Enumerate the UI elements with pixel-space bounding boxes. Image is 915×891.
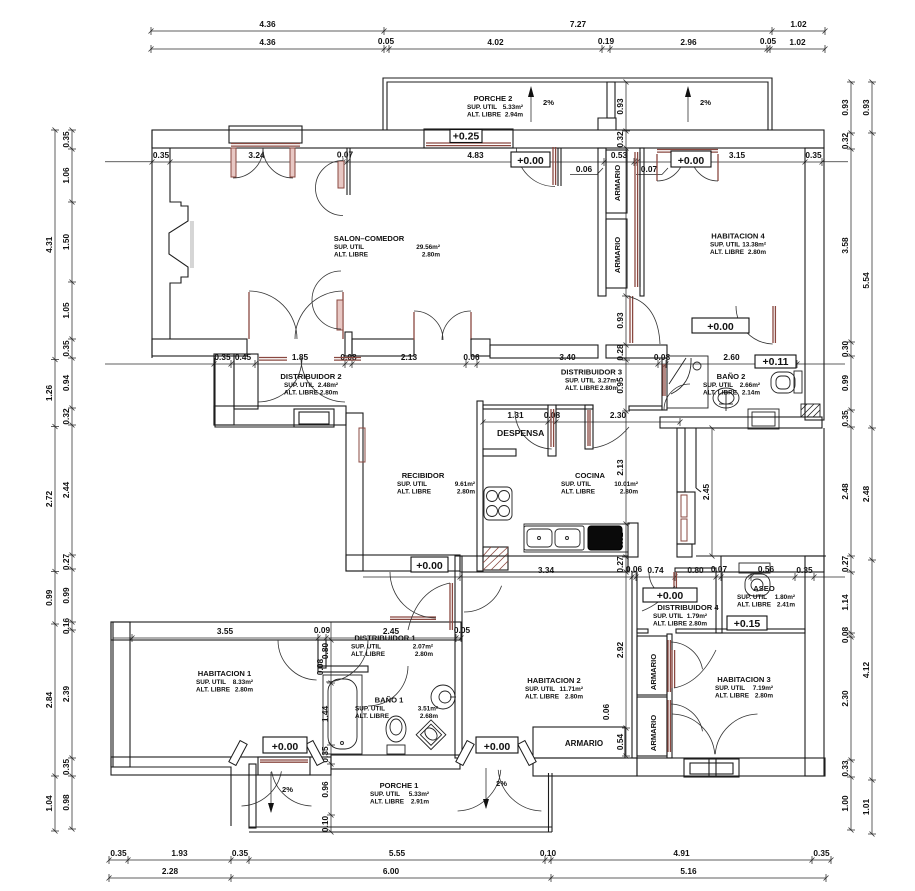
svg-text:DISTRIBUIDOR 2: DISTRIBUIDOR 2 <box>280 372 341 381</box>
door salon-recibidor double arcs up <box>413 312 415 340</box>
bano1 bidet diamond <box>416 720 446 750</box>
svg-text:13.38m²: 13.38m² <box>742 242 766 249</box>
svg-text:ALT. LIBRE: ALT. LIBRE <box>397 489 432 496</box>
interior vertical dimension line x331 porche1 <box>330 640 332 832</box>
svg-text:ARMARIO: ARMARIO <box>649 715 658 751</box>
hab1 left wall <box>111 622 130 767</box>
svg-text:2.80m: 2.80m <box>422 252 440 259</box>
svg-text:10.01m²: 10.01m² <box>614 481 638 488</box>
aseo toilet <box>739 563 770 573</box>
svg-text:5.33m²: 5.33m² <box>503 104 523 111</box>
terrace bottom line <box>696 555 826 557</box>
bano2 bottom wall <box>660 417 822 428</box>
svg-text:0.94: 0.94 <box>61 375 71 392</box>
bano1 toilet <box>386 716 406 742</box>
salon bottom wall mid <box>352 339 414 356</box>
interior dimension line lower-block y577 <box>460 576 814 578</box>
svg-text:SALON–COMEDOR: SALON–COMEDOR <box>334 234 405 243</box>
svg-text:2.84: 2.84 <box>44 692 54 709</box>
salon bottom wall right <box>471 339 490 356</box>
svg-text:ARMARIO: ARMARIO <box>565 739 603 748</box>
window salon top-left <box>229 126 302 143</box>
svg-text:0.07: 0.07 <box>337 150 354 160</box>
dimension line right column 2 <box>871 82 873 834</box>
svg-text:ALT. LIBRE: ALT. LIBRE <box>653 621 688 628</box>
corridor top wall <box>629 406 662 410</box>
door distrib4 leaf and arc <box>673 572 675 596</box>
svg-text:+0.15: +0.15 <box>734 618 761 630</box>
svg-text:2.80m: 2.80m <box>320 390 338 397</box>
left exterior wall <box>151 130 153 358</box>
porche 2 outline <box>383 78 772 130</box>
doors hab1 porche diagonal leaves <box>229 741 247 766</box>
svg-text:ARMARIO: ARMARIO <box>613 165 622 201</box>
svg-text:+0.00: +0.00 <box>678 155 705 167</box>
svg-text:0.93: 0.93 <box>615 312 625 329</box>
svg-text:SUP. UTIL: SUP. UTIL <box>525 686 555 693</box>
svg-text:2.80m: 2.80m <box>620 489 638 496</box>
bano2 toilet <box>794 371 802 393</box>
cocina top wall right of despensa <box>556 405 593 409</box>
hab2-armario central wall <box>632 572 637 758</box>
svg-text:2.68m: 2.68m <box>420 713 438 720</box>
dimension line bottom row 1 <box>109 859 831 861</box>
svg-text:2.80m: 2.80m <box>689 621 707 628</box>
svg-text:0.08: 0.08 <box>840 627 850 644</box>
hab1-distrib1 wall 0.09 <box>318 640 326 668</box>
interior vertical dimension line x331 extension <box>330 622 332 640</box>
svg-text:1.01: 1.01 <box>861 799 871 816</box>
dimension line left column 2 <box>71 130 73 829</box>
svg-text:ALT. LIBRE: ALT. LIBRE <box>196 687 231 694</box>
kitchen hob black <box>588 526 622 550</box>
svg-text:9.61m²: 9.61m² <box>455 481 475 488</box>
svg-text:2.13: 2.13 <box>401 352 418 362</box>
svg-text:+0.00: +0.00 <box>707 321 734 333</box>
entry door leaf and arc <box>552 147 554 185</box>
svg-text:5.33m²: 5.33m² <box>409 791 429 798</box>
bano2 shower <box>667 356 708 408</box>
salon right wall <box>598 148 606 296</box>
svg-text:ALT. LIBRE: ALT. LIBRE <box>561 489 596 496</box>
svg-text:1.02: 1.02 <box>789 37 806 47</box>
door hab4 bottom leaf and arc <box>772 306 774 343</box>
svg-text:ALT. LIBRE: ALT. LIBRE <box>334 252 369 259</box>
svg-text:2.66m²: 2.66m² <box>740 382 760 389</box>
svg-text:1.05: 1.05 <box>61 302 71 319</box>
svg-text:1.06: 1.06 <box>61 167 71 184</box>
svg-text:SUP. UTIL: SUP. UTIL <box>397 481 427 488</box>
svg-text:3.27m²: 3.27m² <box>598 378 618 385</box>
door distrib1 arc <box>326 640 368 682</box>
svg-text:0.06: 0.06 <box>576 164 593 174</box>
armario mid 2 <box>637 697 667 756</box>
brown thresholds distrib2 <box>259 357 287 359</box>
svg-text:1.80m²: 1.80m² <box>775 594 795 601</box>
hab4 left wall <box>640 148 644 296</box>
bano2 door jamb <box>662 358 667 410</box>
svg-text:0.99: 0.99 <box>44 589 54 606</box>
svg-text:0.35: 0.35 <box>840 410 850 427</box>
hab3 bottom wall <box>637 758 825 776</box>
svg-text:2.80m: 2.80m <box>235 687 253 694</box>
svg-text:3.58: 3.58 <box>840 237 850 254</box>
slope arrow porche2 left <box>530 88 532 122</box>
svg-text:2%: 2% <box>496 779 507 788</box>
svg-text:2.91m: 2.91m <box>411 799 429 806</box>
svg-text:4.12: 4.12 <box>861 662 871 679</box>
svg-text:ALT. LIBRE: ALT. LIBRE <box>284 390 319 397</box>
door distrib2 lower arcs <box>258 358 302 402</box>
svg-text:2.72: 2.72 <box>44 491 54 508</box>
svg-text:ALT. LIBRE: ALT. LIBRE <box>355 713 390 720</box>
distribuidor 2 left wall <box>214 354 234 425</box>
svg-text:ALT. LIBRE: ALT. LIBRE <box>737 602 772 609</box>
svg-text:2.07m²: 2.07m² <box>413 644 433 651</box>
svg-text:0.05: 0.05 <box>378 36 395 46</box>
aseo-distrib4 divider wall <box>716 572 722 633</box>
svg-text:BAÑO 2: BAÑO 2 <box>717 372 746 381</box>
svg-text:3.40: 3.40 <box>559 352 576 362</box>
armario sliding fronts brown <box>634 152 636 287</box>
armario column right wall <box>667 634 672 758</box>
level +0.00 distrib4 <box>643 588 697 602</box>
svg-text:0.74: 0.74 <box>647 565 664 575</box>
slope arrow porche1 left <box>270 772 272 812</box>
svg-text:2.96: 2.96 <box>680 37 697 47</box>
distrib4 bottom / hab3 top wall <box>637 629 648 633</box>
slope arrow porche1 right <box>485 768 487 808</box>
armario mid brown fronts <box>667 640 669 692</box>
svg-text:0.35: 0.35 <box>232 848 249 858</box>
armario top 2 <box>606 219 627 288</box>
kitchen sink unit <box>524 526 584 550</box>
svg-text:SUP. UTIL: SUP. UTIL <box>467 104 497 111</box>
svg-text:2.44: 2.44 <box>61 482 71 499</box>
svg-text:0.35: 0.35 <box>813 848 830 858</box>
bano2 door arc <box>664 384 690 410</box>
svg-text:3.34: 3.34 <box>538 565 555 575</box>
svg-text:5.16: 5.16 <box>680 866 697 876</box>
svg-text:ALT. LIBRE: ALT. LIBRE <box>525 694 560 701</box>
dimension line top row 1 <box>151 30 825 32</box>
bano2 towel radiator below wall <box>748 409 779 429</box>
svg-text:0.07: 0.07 <box>641 164 658 174</box>
terrace left wall upper <box>677 428 685 492</box>
svg-text:SUP. UTIL: SUP. UTIL <box>355 706 385 713</box>
svg-text:0.06: 0.06 <box>601 704 611 721</box>
svg-text:0.53: 0.53 <box>611 150 628 160</box>
top exterior wall <box>152 130 824 148</box>
svg-text:2.80m: 2.80m <box>600 385 618 392</box>
svg-text:7.19m²: 7.19m² <box>753 685 773 692</box>
bano2 radiator hatched <box>801 404 820 417</box>
svg-text:+0.25: +0.25 <box>453 131 480 143</box>
window recibidor left <box>359 428 365 462</box>
terrace right line <box>823 428 825 556</box>
svg-text:2.80m: 2.80m <box>565 694 583 701</box>
svg-text:DISTRIBUIDOR 4: DISTRIBUIDOR 4 <box>657 603 719 612</box>
salon bottom wall jamb 0.08 <box>345 332 352 356</box>
svg-text:2.80m: 2.80m <box>748 249 766 256</box>
kitchen counter <box>524 524 628 552</box>
svg-text:SUP. UTIL: SUP. UTIL <box>710 242 740 249</box>
svg-text:SUP. UTIL: SUP. UTIL <box>561 481 591 488</box>
recibidor left wall <box>346 413 363 571</box>
interior dimension line hab1 y638 extension <box>113 637 132 639</box>
interior dimension line y161 extension <box>105 161 152 163</box>
svg-text:2.39: 2.39 <box>61 686 71 703</box>
svg-text:2.48m²: 2.48m² <box>318 382 338 389</box>
svg-text:0.09: 0.09 <box>314 625 331 635</box>
svg-text:DESPENSA: DESPENSA <box>497 428 544 438</box>
svg-text:0.10: 0.10 <box>540 848 557 858</box>
svg-text:0.35: 0.35 <box>61 340 71 357</box>
dimension line right column 1 <box>850 82 852 830</box>
svg-text:4.31: 4.31 <box>44 236 54 253</box>
level +0.00 recibidor <box>411 557 448 572</box>
svg-text:3.55: 3.55 <box>217 626 234 636</box>
distribuidor 2 bottom wall <box>214 406 346 425</box>
svg-text:ALT. LIBRE: ALT. LIBRE <box>351 651 386 658</box>
svg-text:ASEO: ASEO <box>753 584 775 593</box>
interior dimension line y364 <box>214 363 797 365</box>
svg-text:0.05: 0.05 <box>760 36 777 46</box>
outer boundary lower left <box>113 622 231 826</box>
svg-text:5.55: 5.55 <box>389 848 406 858</box>
svg-text:1.79m²: 1.79m² <box>687 613 707 620</box>
svg-text:COCINA: COCINA <box>575 471 605 480</box>
interior dimension line y364 extension <box>105 363 214 365</box>
svg-text:1.93: 1.93 <box>171 848 188 858</box>
svg-text:4.02: 4.02 <box>487 37 504 47</box>
svg-text:0.93: 0.93 <box>861 99 871 116</box>
door armarios to distrib3 <box>629 296 631 343</box>
svg-text:0.35: 0.35 <box>110 848 127 858</box>
svg-text:3.51m²: 3.51m² <box>418 706 438 713</box>
hab1 top wall <box>111 622 461 640</box>
svg-text:1.04: 1.04 <box>44 795 54 812</box>
svg-text:SUP. UTIL: SUP. UTIL <box>196 679 226 686</box>
svg-text:+0.00: +0.00 <box>416 560 443 572</box>
svg-text:DISTRIBUIDOR 1: DISTRIBUIDOR 1 <box>354 634 416 643</box>
svg-text:0.35: 0.35 <box>153 150 170 160</box>
svg-text:0.35: 0.35 <box>805 150 822 160</box>
svg-text:2.80m: 2.80m <box>755 693 773 700</box>
svg-text:SUP. UTIL: SUP. UTIL <box>351 644 381 651</box>
svg-text:SUP. UTIL: SUP. UTIL <box>334 244 364 251</box>
svg-text:SUP. UTIL: SUP. UTIL <box>653 613 683 620</box>
svg-text:5.54: 5.54 <box>861 272 871 289</box>
terrace left wall lower <box>677 544 692 557</box>
svg-text:4.36: 4.36 <box>259 37 276 47</box>
svg-text:1.26: 1.26 <box>44 385 54 402</box>
svg-text:0.32: 0.32 <box>840 133 850 150</box>
svg-text:2%: 2% <box>700 98 711 107</box>
svg-text:SUP. UTIL: SUP. UTIL <box>737 594 767 601</box>
svg-text:BAÑO 1: BAÑO 1 <box>375 696 404 705</box>
svg-text:0.08: 0.08 <box>544 410 561 420</box>
interior dimension line despensa y422 <box>483 421 680 423</box>
svg-text:2.28: 2.28 <box>162 866 179 876</box>
level +0.15 aseo <box>727 616 767 630</box>
svg-text:0.27: 0.27 <box>840 556 850 573</box>
svg-text:2.41m: 2.41m <box>777 602 795 609</box>
svg-text:0.30: 0.30 <box>840 341 850 358</box>
door salon top-left double arcs <box>231 148 236 177</box>
svg-text:1.50: 1.50 <box>61 234 71 251</box>
hatched step cocina <box>483 547 508 570</box>
svg-text:0.98: 0.98 <box>61 794 71 811</box>
svg-text:ALT. LIBRE: ALT. LIBRE <box>370 799 405 806</box>
svg-text:0.32: 0.32 <box>61 408 71 425</box>
level +0.00 hab2 <box>476 737 518 753</box>
svg-text:SUP. UTIL: SUP. UTIL <box>565 378 595 385</box>
svg-text:7.27: 7.27 <box>570 19 587 29</box>
armario mid 1 <box>637 636 667 695</box>
armario mid door arcs <box>670 642 703 669</box>
armario hab2 bottom <box>533 727 625 758</box>
svg-text:ALT. LIBRE: ALT. LIBRE <box>715 693 750 700</box>
svg-text:0.54: 0.54 <box>615 734 625 751</box>
svg-text:ALT. LIBRE: ALT. LIBRE <box>710 249 745 256</box>
svg-text:SUP. UTIL: SUP. UTIL <box>715 685 745 692</box>
svg-text:0.99: 0.99 <box>61 587 71 604</box>
door aseo arc <box>642 586 675 611</box>
entrance step vestibule <box>294 409 334 427</box>
svg-text:0.35: 0.35 <box>61 131 71 148</box>
svg-text:4.91: 4.91 <box>673 848 690 858</box>
level +0.00 hab4 <box>692 318 749 333</box>
svg-text:1.44: 1.44 <box>320 706 330 723</box>
svg-text:ARMARIO: ARMARIO <box>613 237 622 273</box>
terrace inner line <box>695 428 697 488</box>
svg-text:1.00: 1.00 <box>840 795 850 812</box>
svg-text:2.45: 2.45 <box>701 484 711 501</box>
porche1 bottom edge <box>249 826 552 828</box>
bano1 bathtub <box>323 675 362 754</box>
porche1 right edge <box>548 773 550 832</box>
svg-text:2%: 2% <box>543 98 554 107</box>
svg-text:0.16: 0.16 <box>61 618 71 635</box>
svg-text:0.93: 0.93 <box>615 98 625 115</box>
aseo top wall <box>721 556 824 572</box>
svg-text:+0.00: +0.00 <box>517 155 544 167</box>
svg-text:ALT. LIBRE: ALT. LIBRE <box>703 390 738 397</box>
cocina door arc <box>593 427 629 448</box>
despensa bottom wall <box>483 449 516 456</box>
lower right exterior wall <box>805 556 824 776</box>
cocina left wall <box>477 401 483 571</box>
recibidor bottom wall <box>346 555 460 571</box>
cocina right wall chunk <box>628 523 638 557</box>
svg-text:2.92: 2.92 <box>615 642 625 659</box>
svg-text:8.33m²: 8.33m² <box>233 679 253 686</box>
right exterior wall upper <box>805 148 824 420</box>
distrib3 north wall <box>490 345 598 358</box>
svg-text:2.48: 2.48 <box>861 486 871 503</box>
interior vertical dimension line x626 <box>625 82 627 756</box>
despensa right jamb <box>548 405 556 456</box>
svg-text:+0.11: +0.11 <box>763 356 789 368</box>
salon bottom wall left <box>152 339 247 356</box>
svg-text:RECIBIDOR: RECIBIDOR <box>402 471 445 480</box>
svg-text:2.14m: 2.14m <box>742 390 760 397</box>
level +0.00 entry top <box>511 152 550 167</box>
door hab3 leaf and arc <box>671 650 673 688</box>
porche1 left wall <box>249 764 256 828</box>
level +0.00 hab4 hall <box>671 151 711 167</box>
svg-text:29.56m²: 29.56m² <box>416 244 440 251</box>
slope arrow porche2 right <box>687 88 689 122</box>
door recibidor-distrib1 swing down <box>390 616 436 618</box>
cocina door stub wall <box>585 405 593 449</box>
doors hab2 porche diagonal leaves <box>456 741 474 766</box>
door 180 swing salon <box>337 300 343 330</box>
svg-text:PORCHE 1: PORCHE 1 <box>380 781 420 790</box>
level +0.11 bano2 <box>755 355 796 368</box>
svg-text:2.30: 2.30 <box>840 690 850 707</box>
svg-text:DISTRIBUIDOR 3: DISTRIBUIDOR 3 <box>561 368 622 377</box>
hab1 bottom wall <box>111 757 331 775</box>
svg-text:2.60: 2.60 <box>723 352 740 362</box>
door hab2 top arc <box>464 586 502 612</box>
terrace window box <box>677 492 695 544</box>
bano1 right wall <box>455 556 462 758</box>
svg-text:4.83: 4.83 <box>467 150 484 160</box>
bano1 washbasin <box>431 685 455 709</box>
svg-text:0.10: 0.10 <box>320 816 330 833</box>
svg-text:4.36: 4.36 <box>259 19 276 29</box>
svg-text:0.96: 0.96 <box>320 781 330 798</box>
svg-text:0.19: 0.19 <box>598 36 615 46</box>
svg-text:0.06: 0.06 <box>463 352 480 362</box>
interior dimension line y161 <box>152 161 822 163</box>
svg-text:+0.00: +0.00 <box>484 741 511 753</box>
svg-text:2.80m: 2.80m <box>457 489 475 496</box>
interior vertical dimension line x712 terrace <box>711 428 713 556</box>
interior dimension line hab1 y638 <box>132 637 461 639</box>
svg-text:1.02: 1.02 <box>790 19 807 29</box>
svg-text:+0.00: +0.00 <box>272 741 299 753</box>
svg-text:SUP. UTIL: SUP. UTIL <box>370 791 400 798</box>
svg-text:0.33: 0.33 <box>840 760 850 777</box>
window hab3 bottom <box>684 759 739 777</box>
svg-text:2.13: 2.13 <box>615 459 625 476</box>
distribuidor 2 pillar <box>234 354 258 409</box>
svg-text:2.80m: 2.80m <box>415 651 433 658</box>
svg-text:6.00: 6.00 <box>383 866 400 876</box>
svg-text:SUP. UTIL: SUP. UTIL <box>703 382 733 389</box>
window-door hab4 top <box>657 149 718 151</box>
dimension line left column 1 <box>54 130 56 831</box>
svg-text:ARMARIO: ARMARIO <box>649 654 658 690</box>
svg-text:HABITACION 2: HABITACION 2 <box>527 676 580 685</box>
svg-text:2.94m: 2.94m <box>505 112 523 119</box>
door distrib2 double arcs up <box>248 292 250 339</box>
dimension line top row 2 <box>151 48 825 50</box>
svg-text:11.71m²: 11.71m² <box>560 686 583 693</box>
outer boundary left of distrib2 <box>215 358 294 427</box>
svg-text:0.32: 0.32 <box>615 131 625 148</box>
door bano1 arc <box>368 666 408 706</box>
despensa-cocina top wall <box>483 405 548 409</box>
svg-text:HABITACION 1: HABITACION 1 <box>198 669 252 678</box>
svg-text:3.15: 3.15 <box>729 150 746 160</box>
level +0.00 hab1 <box>263 737 307 753</box>
svg-text:0.35: 0.35 <box>61 759 71 776</box>
svg-text:SUP. UTIL: SUP. UTIL <box>284 382 314 389</box>
